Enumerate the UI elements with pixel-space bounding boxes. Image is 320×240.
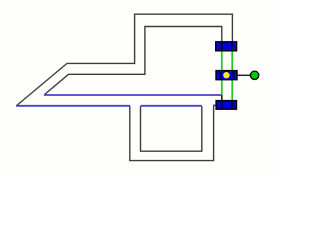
- top handle (blue box): [216, 42, 237, 51]
- outer profile: top / right / left / notch / diagonal (black outline): [16, 14, 232, 106]
- manipulator green track line, right, between middle and bottom handles: [231, 79, 233, 101]
- green ball end-handle: [250, 71, 258, 79]
- inner rectangle left/bottom/right (black outline): [141, 106, 202, 151]
- inner profile: top / right / left / notch / diagonal (black outline): [44, 27, 222, 96]
- manipulator green track line, left, between top and middle handles: [221, 50, 223, 71]
- connector stem from middle handle to green ball: [237, 74, 250, 76]
- yellow center dot: [223, 72, 229, 78]
- inner profile right edge lower stub (black) from blue edge down to bottom handle: [221, 95, 223, 102]
- bottom handle (blue box): [216, 101, 236, 110]
- inner profile bottom edge (blue): [44, 94, 222, 96]
- outer profile bottom tab (black outline): [130, 106, 214, 161]
- manipulator green track line, right, between top and middle handles: [231, 50, 233, 71]
- manipulator green track line, left, between middle handle and blue edge: [221, 79, 223, 95]
- inner rectangle top edge (blue): [141, 105, 202, 107]
- middle handle (blue box with yellow dot): [216, 71, 237, 80]
- outer profile bottom edge (blue) left of tab: [16, 105, 130, 107]
- outer profile bottom edge (blue) right of tab, mostly hidden by bottom handle: [213, 104, 232, 106]
